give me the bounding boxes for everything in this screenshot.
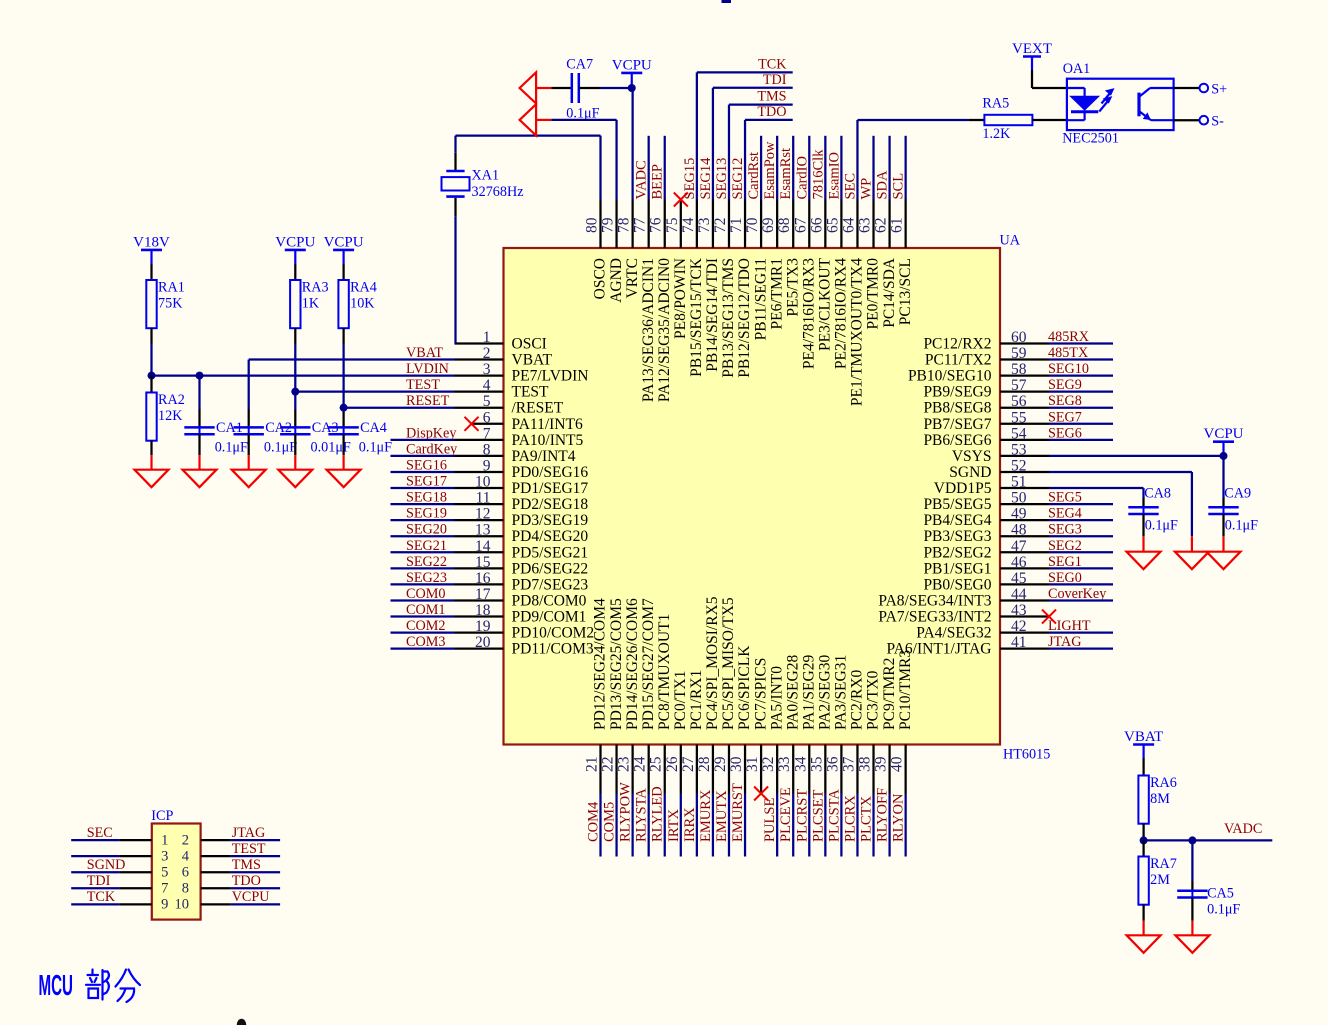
svg-text:PA2/SEG30: PA2/SEG30 [817, 655, 834, 730]
svg-text:RLYSTA: RLYSTA [634, 788, 650, 842]
capacitor CA3 0.01uF [280, 392, 351, 456]
svg-text:ICP: ICP [151, 808, 173, 824]
svg-text:PD13/SEG25/COM5: PD13/SEG25/COM5 [608, 598, 625, 730]
svg-text:PE4/7816IO/RX3: PE4/7816IO/RX3 [800, 258, 817, 369]
svg-text:59: 59 [1011, 345, 1027, 362]
svg-text:56: 56 [1011, 393, 1027, 410]
svg-text:EsamRst: EsamRst [778, 148, 794, 200]
svg-text:12K: 12K [158, 408, 183, 424]
svg-text:10K: 10K [350, 296, 375, 312]
pin 5 /RESET / net RESET [344, 393, 564, 417]
ground below CA5 [1191, 921, 1193, 936]
svg-text:S-: S- [1211, 114, 1224, 130]
crystal XA1 32768Hz [442, 168, 524, 201]
svg-text:XA1: XA1 [472, 168, 500, 184]
svg-text:60: 60 [1011, 329, 1027, 346]
pin 56 PB8/SEG8 / net SEG8 [923, 393, 1113, 417]
pin 65 PE2/7816IO/RX4 / net EsamIO [824, 136, 849, 369]
connector ICP body [152, 824, 201, 920]
svg-text:19: 19 [475, 618, 491, 635]
capacitor CA8 0.1uF [1128, 486, 1178, 537]
svg-text:73: 73 [696, 217, 713, 233]
svg-text:PB8/SEG8: PB8/SEG8 [923, 400, 991, 417]
svg-text:PB15/SEG15/TCK: PB15/SEG15/TCK [688, 257, 705, 377]
wire AGND net: lower arrow to pin 79 [551, 119, 616, 121]
svg-text:CA7: CA7 [566, 57, 593, 73]
svg-text:PB4/SEG4: PB4/SEG4 [923, 512, 991, 529]
svg-text:2: 2 [483, 345, 491, 362]
svg-text:36: 36 [824, 756, 841, 772]
wire opto collector to S+ terminal [1174, 87, 1200, 89]
svg-text:1: 1 [161, 832, 168, 848]
pin 20 PD11/COM3 / net COM3 [391, 634, 594, 658]
svg-text:PLCRST: PLCRST [794, 789, 810, 842]
svg-text:RA3: RA3 [302, 280, 329, 296]
pin 61 PC13/SCL / net SCL [889, 136, 914, 325]
svg-text:71: 71 [728, 218, 745, 234]
svg-text:V18V: V18V [133, 234, 170, 250]
pin 7 PA10/INT5 / net DispKey [391, 425, 584, 449]
svg-text:PD4/SEG20: PD4/SEG20 [512, 528, 589, 545]
svg-text:PLCSTA: PLCSTA [826, 789, 842, 842]
svg-text:55: 55 [1011, 409, 1027, 426]
svg-text:OSCI: OSCI [512, 336, 547, 353]
pin 74 PB15/SEG15/TCK / net SEG15 [680, 57, 793, 377]
svg-text:PB6/SEG6: PB6/SEG6 [923, 432, 991, 449]
svg-text:20: 20 [475, 634, 491, 651]
wire RA4 to RESET junction [342, 344, 344, 408]
svg-text:RLYLED: RLYLED [650, 786, 666, 842]
capacitor CA9 0.1uF [1208, 456, 1258, 536]
svg-text:48: 48 [1011, 522, 1027, 539]
pin 13 PD4/SEG20 / net SEG20 [391, 522, 589, 546]
pin 54 PB6/SEG6 / net SEG6 [923, 425, 1113, 449]
pin 47 PB2/SEG2 / net SEG2 [923, 538, 1113, 562]
svg-text:64: 64 [840, 217, 857, 233]
svg-text:28: 28 [696, 756, 713, 772]
svg-text:47: 47 [1011, 538, 1027, 555]
junction RA6 / RA7 / VADC [1140, 836, 1148, 844]
svg-text:4: 4 [483, 377, 491, 394]
svg-text:PB11/SEG11: PB11/SEG11 [752, 258, 769, 340]
wire VEXT to opto anode [1031, 70, 1033, 88]
pin 6 PA11/INT6 [465, 409, 583, 433]
pin 40 PC10/TMR3 / net RLYON [889, 650, 914, 857]
pin 77 PA13/SEG36/ADCIN1 / net VADC [632, 136, 657, 402]
wire RA3 to TEST junction [294, 344, 296, 392]
svg-text:AGND: AGND [608, 258, 625, 303]
svg-text:79: 79 [600, 217, 617, 233]
svg-text:0.1μF: 0.1μF [1207, 902, 1240, 918]
pin 14 PD5/SEG21 / net SEG21 [391, 538, 589, 562]
pin 37 PC2/RX0 / net PLCRX [840, 669, 865, 856]
pin 38 PC3/TX0 / net PLCTX [857, 670, 882, 856]
capacitor CA4 0.1uF [328, 408, 392, 456]
svg-text:PA9/INT4: PA9/INT4 [512, 448, 576, 465]
svg-text:PE2/7816IO/RX4: PE2/7816IO/RX4 [833, 258, 850, 369]
svg-text:57: 57 [1011, 377, 1027, 394]
svg-text:1: 1 [483, 329, 491, 346]
svg-text:PC13/SCL: PC13/SCL [897, 258, 914, 325]
svg-text:54: 54 [1011, 425, 1027, 442]
svg-text:23: 23 [616, 756, 633, 772]
svg-text:RA6: RA6 [1150, 775, 1177, 791]
svg-text:VADC: VADC [1224, 821, 1262, 837]
svg-text:VBAT: VBAT [1124, 729, 1163, 745]
svg-text:10: 10 [175, 897, 190, 913]
svg-text:PC2/RX0: PC2/RX0 [849, 669, 866, 730]
terminal S+ [1200, 84, 1209, 93]
pin 35 PA2/SEG30 / net PLCSET [808, 655, 833, 857]
svg-text:RA5: RA5 [982, 96, 1009, 112]
svg-text:49: 49 [1011, 506, 1027, 523]
svg-text:TDO: TDO [757, 104, 786, 120]
svg-text:VCPU: VCPU [1203, 426, 1243, 442]
svg-text:45: 45 [1011, 570, 1027, 587]
resistor RA5 1.2K [968, 96, 1067, 143]
ICP pin 10 / net VCPU [175, 889, 281, 912]
svg-text:PA3/SEG31: PA3/SEG31 [833, 655, 850, 730]
svg-text:76: 76 [648, 217, 665, 233]
pin 42 PA4/SEG32 / net LIGHT [916, 618, 1113, 642]
svg-text:72: 72 [712, 218, 729, 234]
svg-text:3: 3 [161, 848, 168, 864]
pin 25 PC8/TMUXOUT1 / net RLYLED [648, 614, 673, 857]
ICP pin 7 / net TDI [71, 873, 168, 896]
svg-text:44: 44 [1011, 586, 1027, 603]
svg-text:69: 69 [760, 217, 777, 233]
svg-text:12: 12 [475, 506, 491, 523]
junction RESET / RA4 / CA4 [340, 404, 348, 412]
svg-text:CA4: CA4 [360, 420, 387, 436]
svg-text:TCK: TCK [758, 57, 787, 73]
svg-text:PLCTX: PLCTX [859, 796, 875, 842]
svg-text:PB5/SEG5: PB5/SEG5 [923, 496, 991, 513]
svg-text:WP: WP [859, 178, 875, 200]
pin 43 PA7/SEG33/INT2 [878, 602, 1056, 626]
svg-text:35: 35 [808, 756, 825, 772]
IC body U A (HT6015) yellow rectangle [504, 248, 1001, 745]
svg-text:PE8/POWIN: PE8/POWIN [672, 258, 689, 339]
svg-text:75: 75 [664, 217, 681, 233]
wire OSCO net: crystal top to pin 80 [454, 153, 456, 171]
svg-text:26: 26 [664, 756, 681, 772]
svg-text:PA0/SEG28: PA0/SEG28 [784, 655, 801, 730]
svg-text:68: 68 [776, 217, 793, 233]
svg-text:PC11/TX2: PC11/TX2 [925, 352, 992, 369]
svg-text:CA5: CA5 [1207, 885, 1234, 901]
pin 8 PA9/INT4 / net CardKey [391, 441, 576, 465]
wire CA7 to VCPU junction [600, 87, 632, 89]
svg-text:RLYON: RLYON [891, 793, 907, 842]
ICP pin 2 / net JTAG [182, 825, 280, 848]
svg-text:24: 24 [632, 756, 649, 772]
svg-text:CardIO: CardIO [794, 156, 810, 200]
svg-text:37: 37 [840, 756, 857, 772]
resistor RA6 8M [1138, 758, 1177, 840]
svg-text:PD3/SEG19: PD3/SEG19 [512, 512, 589, 529]
pin 62 PC14/SDA / net SDA [873, 136, 898, 328]
svg-text:VEXT: VEXT [1012, 41, 1052, 57]
svg-text:0.1μF: 0.1μF [1225, 518, 1258, 534]
svg-text:SEG12: SEG12 [730, 158, 746, 200]
svg-text:31: 31 [744, 757, 761, 773]
svg-text:8M: 8M [1150, 791, 1170, 807]
pin 28 PC4/SPI_MOSI/RX5 / net EMURX [696, 596, 721, 856]
wire RA1 to junction [150, 344, 152, 376]
svg-text:VRTC: VRTC [624, 258, 641, 298]
svg-text:30: 30 [728, 756, 745, 772]
svg-text:PA4/SEG32: PA4/SEG32 [916, 625, 991, 642]
svg-text:7: 7 [483, 425, 491, 442]
svg-text:PE1/TMUXOUT0/TX4: PE1/TMUXOUT0/TX4 [849, 258, 866, 406]
ground for SGND [1191, 536, 1193, 551]
svg-text:VSYS: VSYS [952, 448, 992, 465]
svg-text:PB7/SEG7: PB7/SEG7 [923, 416, 991, 433]
caption glyph FEN (Chinese char) [116, 970, 141, 1003]
sheet connector arrow (lower) [520, 104, 537, 135]
svg-text:NEC2501: NEC2501 [1062, 130, 1119, 146]
svg-text:VCPU: VCPU [232, 889, 270, 905]
capacitor CA1 0.1uF [184, 376, 248, 456]
svg-text:PA11/INT6: PA11/INT6 [512, 416, 583, 433]
ground below CA1 [198, 455, 200, 470]
wire VADC net [1144, 839, 1273, 841]
svg-text:EsamIO: EsamIO [826, 152, 842, 200]
svg-text:SEG13: SEG13 [714, 158, 730, 200]
svg-text:PLCEVE: PLCEVE [778, 787, 794, 842]
svg-text:IRRX: IRRX [682, 807, 698, 842]
pin 46 PB1/SEG1 / net SEG1 [923, 554, 1113, 578]
pin 33 PA0/SEG28 / net PLCEVE [776, 655, 801, 857]
svg-text:PULSE: PULSE [762, 798, 778, 842]
resistor RA2 12K [146, 376, 185, 456]
svg-text:4: 4 [182, 848, 190, 864]
ICP pin 9 / net TCK [71, 889, 168, 912]
svg-text:PD9/COM1: PD9/COM1 [512, 609, 587, 626]
pin 53 VSYS [952, 441, 1224, 465]
svg-text:OA1: OA1 [1063, 61, 1091, 77]
pin 79 AGND [600, 120, 625, 303]
pin 22 PD13/SEG25/COM5 / net COM5 [600, 598, 625, 857]
svg-text:7816Clk: 7816Clk [810, 149, 826, 200]
svg-text:CA8: CA8 [1144, 486, 1171, 502]
svg-text:14: 14 [475, 538, 491, 555]
svg-text:17: 17 [475, 586, 491, 603]
svg-text:8: 8 [182, 881, 189, 897]
svg-text:PB14/SEG14/TDI: PB14/SEG14/TDI [704, 258, 721, 372]
svg-text:2: 2 [182, 832, 189, 848]
pin 59 PC11/TX2 / net 485TX [925, 345, 1113, 369]
junction VCPU / VSYS / CA9 [1220, 452, 1228, 460]
svg-text:80: 80 [584, 217, 601, 233]
svg-text:RA4: RA4 [350, 280, 377, 296]
svg-text:PB9/SEG9: PB9/SEG9 [923, 384, 991, 401]
capacitor CA2 0.1uF [234, 409, 298, 456]
caption glyph BU (Chinese char) [86, 970, 109, 1000]
svg-text:27: 27 [680, 756, 697, 772]
svg-text:PLCRX: PLCRX [842, 795, 858, 842]
pin 73 PB14/SEG14/TDI / net SEG14 [696, 72, 793, 372]
pin 78 VRTC [616, 88, 641, 298]
pin 34 PA1/SEG29 / net PLCRST [792, 655, 817, 857]
svg-text:CA9: CA9 [1224, 486, 1251, 502]
svg-text:PD5/SEG21: PD5/SEG21 [512, 544, 589, 561]
junction TEST / RA3 / CA3 [291, 388, 299, 396]
partial wire at top edge [722, 0, 732, 3]
pin 52 SGND [949, 457, 1192, 481]
svg-text:TEST: TEST [232, 841, 266, 857]
svg-text:TDO: TDO [232, 873, 261, 889]
junction LVDIN / RA1 / RA2 [148, 372, 156, 380]
svg-text:SEC: SEC [842, 173, 858, 200]
pin 2 VBAT / net VBAT [249, 345, 553, 369]
pin 64 PE1/TMUXOUT0/TX4 / net SEC [840, 120, 968, 406]
svg-text:SDA: SDA [875, 170, 891, 200]
svg-text:32768Hz: 32768Hz [472, 184, 524, 200]
pin 72 PB13/SEG13/TMS / net SEG13 [712, 89, 793, 378]
pin 12 PD3/SEG19 / net SEG19 [391, 506, 589, 530]
svg-text:SGND: SGND [949, 464, 991, 481]
capacitor CA5 0.1uF [1177, 840, 1240, 920]
capacitor CA7 0.1uF [551, 57, 600, 122]
svg-text:SCL: SCL [891, 173, 907, 200]
pin 36 PA3/SEG31 / net PLCSTA [824, 655, 849, 857]
svg-text:9: 9 [161, 897, 168, 913]
svg-text:22: 22 [600, 757, 617, 773]
svg-text:PB12/SEG12/TDO: PB12/SEG12/TDO [736, 258, 753, 378]
svg-text:2M: 2M [1150, 872, 1170, 888]
pin 67 PE4/7816IO/RX3 / net CardIO [792, 136, 817, 369]
svg-text:PD2/SEG18: PD2/SEG18 [512, 496, 589, 513]
svg-text:PA8/SEG34/INT3: PA8/SEG34/INT3 [878, 592, 991, 609]
pin 31 PC7/SPICS [744, 658, 769, 801]
pin 29 PC5/SPI_MISO/TX5 / net EMUTX [712, 597, 737, 856]
svg-text:66: 66 [808, 217, 825, 233]
svg-text:PD1/SEG17: PD1/SEG17 [512, 480, 589, 497]
svg-text:/RESET: /RESET [512, 400, 564, 417]
junction LVDIN / CA1 [196, 372, 204, 380]
svg-text:BEEP: BEEP [650, 164, 666, 199]
svg-text:VCPU: VCPU [612, 57, 652, 73]
svg-text:SEG14: SEG14 [698, 157, 714, 200]
svg-text:COM4: COM4 [586, 801, 602, 842]
svg-text:5: 5 [161, 865, 168, 881]
svg-text:RLYPOW: RLYPOW [618, 782, 634, 842]
svg-text:21: 21 [584, 757, 601, 773]
pin 71 PB12/SEG12/TDO / net SEG12 [728, 104, 793, 378]
pin 24 PD15/SEG27/COM7 / net RLYSTA [632, 598, 657, 857]
svg-text:PC14/SDA: PC14/SDA [881, 257, 898, 328]
pin 11 PD2/SEG18 / net SEG18 [391, 490, 589, 513]
svg-text:33: 33 [776, 756, 793, 772]
svg-text:RLYOFF: RLYOFF [875, 788, 891, 842]
svg-text:UA: UA [1000, 233, 1021, 249]
svg-text:PA12/SEG35/ADCIN0: PA12/SEG35/ADCIN0 [656, 258, 673, 402]
sheet connector arrow (upper) [520, 72, 537, 103]
svg-text:VDD1P5: VDD1P5 [934, 480, 992, 497]
pin 63 PE0/TMR0 / net WP [857, 136, 882, 330]
svg-text:PC12/RX2: PC12/RX2 [923, 336, 991, 353]
pin 45 PB0/SEG0 / net SEG0 [923, 570, 1113, 594]
pin 30 PC6/SPICLK / net EMURST [728, 645, 753, 857]
pin 80 OSCO [584, 136, 609, 300]
svg-text:EMUTX: EMUTX [714, 790, 730, 842]
svg-text:34: 34 [792, 756, 809, 772]
svg-text:RA7: RA7 [1150, 856, 1177, 872]
pin 66 PE3/CLKOUT / net 7816Clk [808, 136, 833, 351]
svg-text:32: 32 [760, 757, 777, 773]
wire OSCI net: crystal column to pin 1 [454, 216, 456, 343]
pin 9 PD0/SEG16 / net SEG16 [391, 457, 589, 481]
svg-text:SEG15: SEG15 [682, 158, 698, 200]
svg-text:29: 29 [712, 756, 729, 772]
svg-text:38: 38 [857, 756, 874, 772]
pin 41 PA6/INT1/JTAG / net JTAG [887, 634, 1113, 658]
svg-text:0.01μF: 0.01μF [311, 440, 351, 456]
svg-text:0.1μF: 0.1μF [264, 440, 297, 456]
ICP pin 4 / net TEST [182, 841, 280, 864]
svg-text:MCU: MCU [39, 970, 74, 1002]
svg-text:58: 58 [1011, 361, 1027, 378]
pin 4 TEST / net TEST [295, 377, 549, 401]
pin 23 PD14/SEG26/COM6 / net RLYPOW [616, 598, 641, 857]
svg-text:PE0/TMR0: PE0/TMR0 [865, 258, 882, 330]
pin 70 PB11/SEG11 / net CardRst [744, 136, 769, 341]
svg-text:SEC: SEC [87, 825, 113, 841]
pin 39 PC9/TMR2 / net RLYOFF [873, 658, 898, 857]
svg-text:VADC: VADC [634, 160, 650, 199]
svg-text:8: 8 [483, 441, 491, 458]
svg-text:JTAG: JTAG [232, 825, 266, 841]
svg-text:PD12/SEG24/COM4: PD12/SEG24/COM4 [592, 598, 609, 730]
svg-text:PD14/SEG26/COM6: PD14/SEG26/COM6 [624, 598, 641, 730]
svg-text:25: 25 [648, 756, 665, 772]
svg-text:5: 5 [483, 393, 491, 410]
pin 68 PE5/TX3 / net EsamRst [776, 136, 801, 317]
pin 27 PC1/RX1 / net IRRX [680, 670, 705, 857]
svg-text:RA1: RA1 [158, 280, 185, 296]
svg-text:70: 70 [744, 217, 761, 233]
svg-text:OSCO: OSCO [592, 258, 609, 299]
svg-text:63: 63 [857, 217, 874, 233]
svg-text:PC3/TX0: PC3/TX0 [865, 670, 882, 730]
svg-text:SGND: SGND [87, 857, 126, 873]
svg-text:S+: S+ [1211, 82, 1227, 98]
svg-text:PD11/COM3: PD11/COM3 [512, 641, 594, 658]
wire VBAT net down to CA2 [248, 360, 250, 409]
svg-text:PD10/COM2: PD10/COM2 [512, 625, 595, 642]
ground below CA3 [294, 455, 296, 470]
svg-text:61: 61 [889, 218, 906, 234]
pin 76 PA12/SEG35/ADCIN0 / net BEEP [648, 136, 673, 402]
svg-text:51: 51 [1011, 474, 1027, 491]
pin 48 PB3/SEG3 / net SEG3 [923, 522, 1113, 546]
pin 1 OSCI [455, 329, 547, 353]
wire SGND net down to ground [1191, 472, 1193, 536]
svg-text:9: 9 [483, 457, 491, 474]
svg-text:PA13/SEG36/ADCIN1: PA13/SEG36/ADCIN1 [640, 258, 657, 402]
svg-text:0.1μF: 0.1μF [1145, 518, 1178, 534]
pin 21 PD12/SEG24/COM4 / net COM4 [584, 598, 609, 857]
svg-text:PB1/SEG1: PB1/SEG1 [923, 560, 991, 577]
svg-text:15: 15 [475, 554, 491, 571]
svg-text:PB0/SEG0: PB0/SEG0 [923, 576, 991, 593]
pin 50 PB5/SEG5 / net SEG5 [923, 490, 1113, 513]
pin 44 PA8/SEG34/INT3 / net CoverKey [878, 586, 1113, 610]
svg-text:PE3/CLKOUT: PE3/CLKOUT [817, 257, 834, 351]
partial glyph at bottom edge [237, 1019, 247, 1025]
